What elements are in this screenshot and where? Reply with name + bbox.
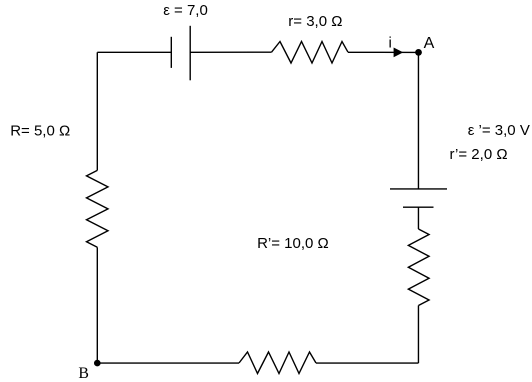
battery EMF source (eps = 7,0) short plate [170,37,172,68]
svg-text:B: B [78,365,89,382]
wire top right (resistor r to node A) [348,51,418,53]
resistor R (5,0 Ohm) zigzag (left) [87,170,109,247]
wire bottom right [316,362,418,364]
svg-text:i: i [389,34,392,51]
wire bottom left [97,362,239,364]
wire right middle (battery to resistor) [417,207,419,229]
battery EMF source (eps' = 3,0 V) short plate [403,206,434,208]
svg-text:A: A [424,35,435,52]
svg-text:ε = 7,0: ε = 7,0 [163,2,208,19]
wire right lower (resistor to corner) [417,306,419,364]
svg-text:r’= 2,0 Ω: r’= 2,0 Ω [450,146,508,163]
current arrow i [394,48,404,58]
svg-text:R= 5,0 Ω: R= 5,0 Ω [10,122,70,139]
resistor r' (2,0 Ohm) zigzag (right) [408,229,429,306]
wire right upper (A to battery) [417,52,419,189]
wire left upper (resistor R to top corner) [96,52,98,170]
resistor r (3,0 Ohm) zigzag [272,42,349,64]
svg-text:ε ’= 3,0 V: ε ’= 3,0 V [468,122,530,139]
battery EMF source (eps' = 3,0 V) long plate [390,188,447,190]
node A dot [415,49,422,56]
node B dot [94,360,101,367]
wire top middle (battery to resistor r) [190,51,271,53]
wire top-left horizontal [97,51,171,53]
battery EMF source (eps = 7,0) long plate [189,26,191,81]
svg-text:r= 3,0 Ω: r= 3,0 Ω [288,13,342,30]
resistor R' (10,0 Ohm) zigzag (bottom) [239,352,316,374]
wire left lower (B to resistor R) [96,247,98,363]
svg-text:R’= 10,0 Ω: R’= 10,0 Ω [257,235,329,252]
